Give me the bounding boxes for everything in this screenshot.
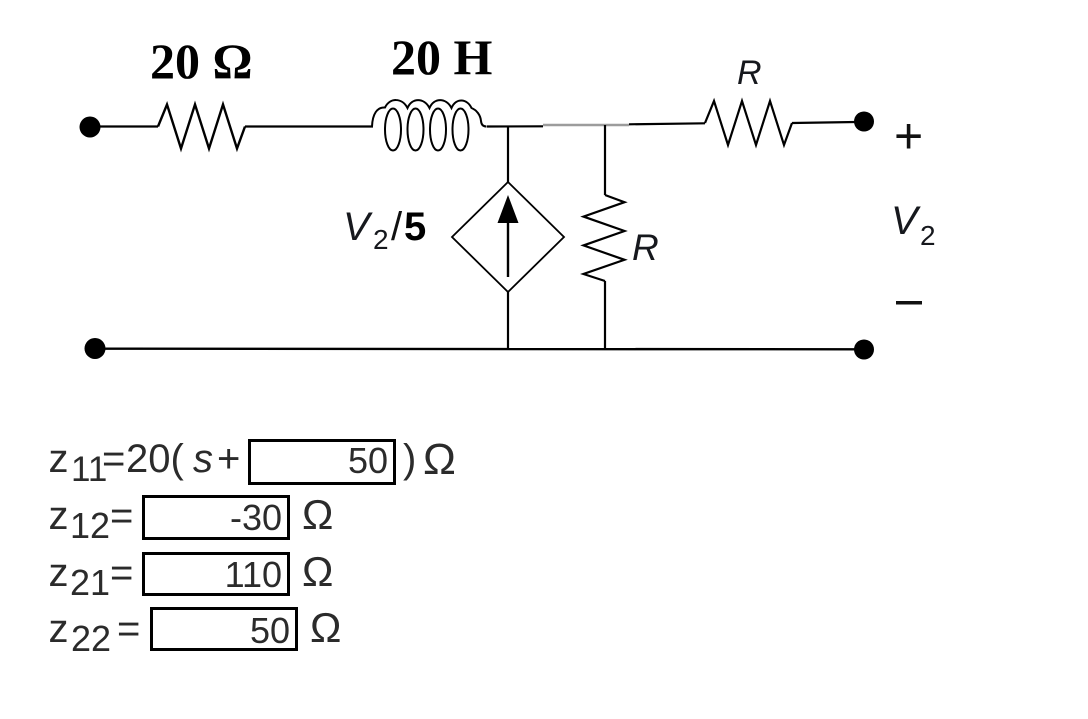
- svg-text:Ω: Ω: [302, 491, 333, 538]
- svg-text:z: z: [49, 551, 69, 595]
- wire from current source bottom to bottom rail: [507, 292, 509, 349]
- wire from inductor to node A: [487, 125, 543, 127]
- equation row z11: [49, 435, 456, 489]
- svg-text:V: V: [891, 199, 921, 243]
- terminal dot bottom-left (port 1 -): [85, 338, 106, 359]
- resistor R (series, top right): [705, 101, 792, 145]
- equation row z12: [49, 491, 334, 546]
- svg-text:R: R: [632, 227, 659, 268]
- label 20 H: [391, 29, 493, 85]
- gray wire segment on top net: [543, 124, 629, 126]
- svg-text:110: 110: [225, 554, 282, 595]
- label + (port 2 polarity): [894, 108, 923, 164]
- node B vertical wire down to resistor R (shunt): [604, 125, 606, 195]
- svg-text:21: 21: [70, 562, 110, 603]
- svg-text:z: z: [49, 607, 69, 651]
- wire from node B to resistor R (top right): [629, 123, 705, 124]
- bottom rail wire: [95, 348, 864, 351]
- equation row z22: [49, 604, 342, 659]
- svg-text:V: V: [343, 205, 373, 249]
- svg-text:/: /: [391, 205, 403, 249]
- svg-text:Ω: Ω: [423, 435, 456, 484]
- wire between resistor 20ohm and inductor 20H: [245, 125, 373, 127]
- terminal dot top-left (port 1 +): [80, 117, 101, 138]
- label minus (port 2 polarity): [896, 301, 922, 305]
- svg-text:+: +: [217, 437, 240, 481]
- svg-text:=: =: [110, 551, 133, 595]
- label 20 Ohm: [150, 33, 253, 89]
- svg-text:z: z: [49, 494, 69, 538]
- svg-text:12: 12: [70, 505, 110, 546]
- node A vertical wire down to current source: [507, 127, 509, 184]
- svg-text:=: =: [117, 607, 140, 651]
- svg-text:s: s: [193, 437, 213, 481]
- label R (shunt resistor): [632, 227, 659, 268]
- inductor 20 H (coil loops): [372, 100, 487, 150]
- label V2 (port 2 voltage): [891, 199, 936, 251]
- label R (top right resistor): [737, 54, 762, 92]
- svg-text:Ω: Ω: [302, 548, 333, 595]
- svg-text:20 H: 20 H: [391, 29, 493, 85]
- svg-text:2: 2: [920, 220, 936, 251]
- svg-text:Ω: Ω: [310, 604, 341, 651]
- svg-text:22: 22: [71, 618, 111, 659]
- svg-text:=: =: [110, 494, 133, 538]
- svg-text:+: +: [894, 108, 923, 164]
- terminal dot bottom-right (port 2 -): [854, 340, 874, 360]
- svg-text:50: 50: [348, 440, 388, 481]
- dependent current source V2/5 (diamond): [452, 182, 564, 292]
- wire from shunt resistor R to bottom rail: [604, 281, 606, 349]
- wire from top-left terminal to resistor 20ohm: [99, 125, 158, 127]
- svg-text:=: =: [102, 437, 125, 481]
- wire from resistor R to top-right terminal: [792, 122, 856, 123]
- svg-text:R: R: [737, 54, 762, 92]
- resistor 20 Ohm (series, left): [158, 105, 245, 149]
- svg-text:50: 50: [250, 610, 290, 651]
- svg-text:z: z: [49, 437, 69, 481]
- label V2/5: [343, 205, 426, 255]
- terminal dot top-right (port 2 +): [854, 112, 874, 132]
- svg-text:5: 5: [404, 205, 426, 249]
- resistor R (shunt, vertical): [584, 195, 625, 281]
- svg-text:20(: 20(: [126, 437, 184, 481]
- svg-text:2: 2: [373, 224, 389, 255]
- svg-text:20 Ω: 20 Ω: [150, 33, 253, 89]
- equation row z21: [49, 548, 334, 603]
- svg-text:): ): [403, 437, 416, 481]
- svg-text:-30: -30: [230, 497, 282, 538]
